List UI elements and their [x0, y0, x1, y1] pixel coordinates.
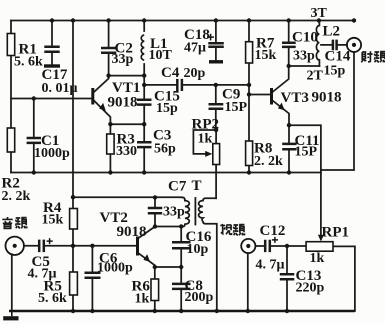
- svg-text:VT3: VT3: [281, 90, 309, 106]
- svg-text:56p: 56p: [154, 142, 176, 157]
- svg-text:5. 6k: 5. 6k: [14, 55, 43, 70]
- svg-text:C10: C10: [292, 30, 318, 46]
- svg-text:33p: 33p: [293, 49, 315, 64]
- svg-text:0. 01μ: 0. 01μ: [42, 81, 78, 96]
- svg-text:9018: 9018: [312, 90, 342, 106]
- svg-text:5. 6k: 5. 6k: [38, 291, 67, 306]
- svg-text:T: T: [192, 178, 202, 194]
- svg-text:15k: 15k: [255, 48, 277, 63]
- svg-text:2. 2k: 2. 2k: [254, 154, 283, 169]
- svg-text:C4: C4: [161, 65, 180, 81]
- svg-text:220p: 220p: [296, 281, 325, 296]
- svg-text:47μ: 47μ: [184, 41, 206, 56]
- svg-text:33p: 33p: [112, 52, 134, 67]
- svg-text:33p: 33p: [163, 205, 185, 220]
- svg-text:2. 2k: 2. 2k: [2, 189, 31, 204]
- svg-text:1k: 1k: [198, 132, 213, 147]
- svg-text:C12: C12: [260, 223, 286, 239]
- svg-text:330: 330: [116, 144, 137, 159]
- svg-text:1000p: 1000p: [97, 261, 133, 276]
- svg-text:15k: 15k: [42, 213, 64, 228]
- svg-text:RP2: RP2: [192, 117, 220, 133]
- svg-text:RP1: RP1: [322, 225, 350, 241]
- svg-text:20p: 20p: [184, 66, 206, 81]
- svg-text:1k: 1k: [310, 251, 325, 266]
- svg-text:3T: 3T: [311, 6, 328, 21]
- svg-text:10p: 10p: [187, 242, 209, 257]
- svg-text:15p: 15p: [156, 101, 178, 116]
- svg-text:1k: 1k: [135, 292, 150, 307]
- svg-text:2T: 2T: [307, 69, 324, 84]
- svg-text:15p: 15p: [324, 64, 346, 79]
- svg-text:200p: 200p: [185, 290, 214, 305]
- svg-text:15P: 15P: [225, 100, 248, 115]
- svg-text:15P: 15P: [295, 145, 318, 160]
- svg-text:10T: 10T: [149, 48, 173, 63]
- svg-text:9018: 9018: [117, 224, 147, 240]
- svg-text:9018: 9018: [108, 95, 138, 111]
- svg-text:1000p: 1000p: [34, 146, 70, 161]
- svg-text:C14: C14: [325, 49, 351, 65]
- svg-text:L2: L2: [323, 24, 341, 40]
- svg-text:C7: C7: [168, 179, 187, 195]
- svg-text:4. 7μ: 4. 7μ: [256, 258, 285, 273]
